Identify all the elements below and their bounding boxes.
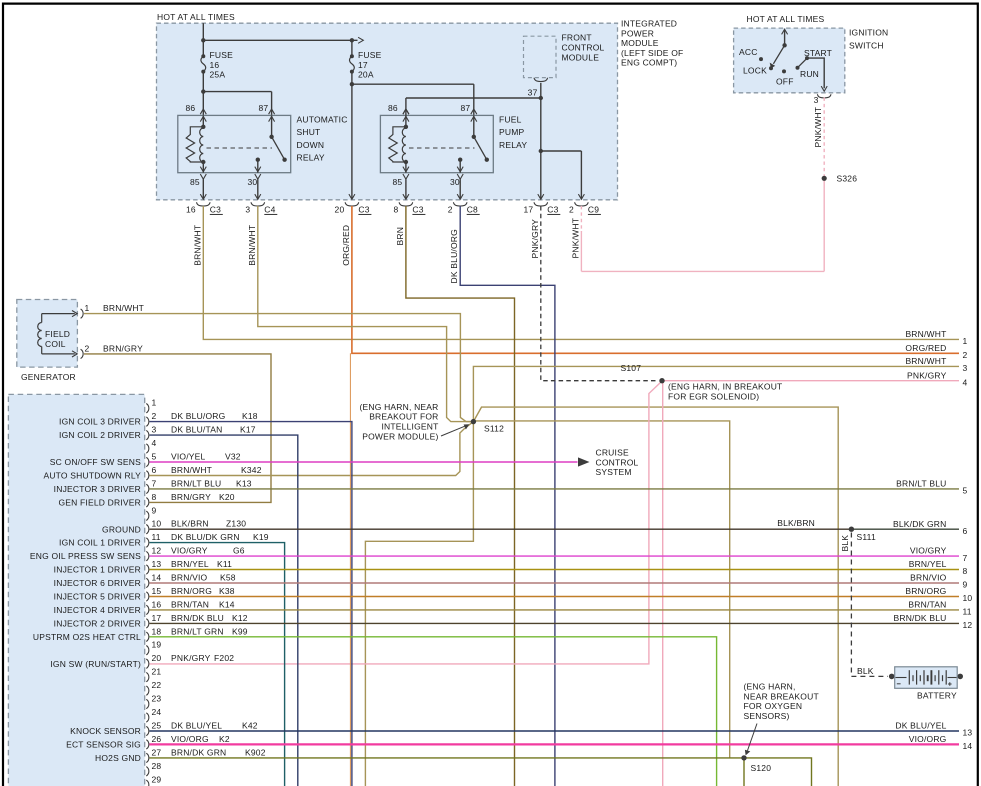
svg-text:BRN/WHT: BRN/WHT	[905, 356, 946, 366]
ASD relay coil with parallel resistor (pin 86 to 85)	[186, 109, 206, 179]
wire DK BLU/ORG from IPM 2 C8 down off-page	[460, 206, 555, 786]
wire PNK/GRY (dark dashed) from IPM 17 C3 to splice S107	[541, 206, 659, 381]
wire K19 DK BLU/DK GRN from PCM pin 11 down off-page	[150, 543, 285, 786]
svg-text:S326: S326	[837, 174, 858, 184]
svg-text:Z130: Z130	[226, 519, 246, 529]
PCM connector pin 29	[146, 774, 161, 786]
PCM connector pin 16	[54, 599, 235, 615]
field coil (generator)	[38, 314, 75, 354]
svg-text:UPSTRM O2S HEAT CTRL: UPSTRM O2S HEAT CTRL	[33, 632, 141, 642]
front control module (FCM)	[524, 33, 605, 98]
right terminal 12 BRN/DK BLU	[893, 613, 972, 630]
svg-text:BRN/DK GRN: BRN/DK GRN	[171, 747, 226, 757]
svg-text:87: 87	[461, 103, 471, 113]
svg-text:BRN/GRY: BRN/GRY	[171, 492, 211, 502]
svg-text:VIO/ORG: VIO/ORG	[909, 734, 947, 744]
svg-text:PNK/GRY: PNK/GRY	[530, 219, 540, 259]
svg-text:V32: V32	[225, 452, 241, 462]
svg-text:86: 86	[388, 103, 398, 113]
wire BRN/WHT generator pin 1 to splice S112	[84, 314, 471, 422]
svg-text:K2: K2	[219, 734, 230, 744]
note: ENG HARN NEAR BREAKOUT FOR INTELLIGENT POWER MODULE	[359, 402, 469, 441]
svg-text:VIO/YEL: VIO/YEL	[171, 452, 206, 462]
svg-text:K11: K11	[217, 559, 232, 569]
svg-text:KNOCK SENSOR: KNOCK SENSOR	[70, 726, 141, 736]
generator connector pins 1 and 2	[72, 303, 144, 359]
wire K17 DK BLU/TAN from PCM pin 3 down off-page	[150, 435, 298, 786]
svg-text:CRUISE: CRUISE	[596, 448, 629, 458]
svg-text:5: 5	[152, 452, 157, 462]
svg-text:17: 17	[152, 613, 162, 623]
svg-text:FUSE: FUSE	[358, 50, 382, 60]
relay: AUTOMATIC SHUT DOWN RELAY	[178, 103, 348, 187]
wire K13 BRN/LT BLU from PCM pin 7 to right terminal 5	[150, 488, 960, 490]
splice S120	[741, 755, 771, 773]
svg-text:BRN/TAN: BRN/TAN	[171, 599, 209, 609]
svg-text:F202: F202	[214, 653, 234, 663]
svg-text:ENG OIL PRESS SW SENS: ENG OIL PRESS SW SENS	[30, 551, 141, 561]
svg-text:BREAKOUT FOR: BREAKOUT FOR	[369, 412, 438, 422]
svg-text:30: 30	[450, 177, 460, 187]
wire: fuse 17 output to fuel pump relay pin 87	[350, 82, 474, 115]
svg-text:PNK/WHT: PNK/WHT	[570, 218, 580, 259]
svg-text:RELAY: RELAY	[499, 140, 527, 150]
svg-text:14: 14	[152, 573, 162, 583]
PCM connector pin 7	[54, 478, 252, 494]
svg-text:K20: K20	[219, 492, 235, 502]
svg-text:37: 37	[528, 88, 538, 98]
right terminal 5 BRN/LT BLU	[896, 479, 967, 496]
PCM connector pin 28	[146, 761, 161, 776]
FPR actuation dashed link	[409, 147, 475, 149]
svg-text:VIO/GRY: VIO/GRY	[910, 546, 947, 556]
FPR relay coil with parallel resistor (pin 86 to 85)	[389, 109, 409, 179]
right terminal 13 DK BLU/YEL	[895, 721, 972, 738]
svg-text:CONTROL: CONTROL	[596, 457, 639, 467]
svg-text:MODULE: MODULE	[562, 52, 600, 62]
splice S111	[849, 527, 876, 543]
PCM connector pin 15	[54, 586, 235, 602]
svg-text:1: 1	[85, 303, 90, 313]
IPM connector pin 2 C9	[569, 202, 601, 214]
PCM connector pin 3	[59, 425, 256, 441]
right terminal 1 BRN/WHT	[905, 329, 967, 346]
svg-text:DK BLU/YEL: DK BLU/YEL	[171, 721, 222, 731]
right terminal 4 PNK/GRY	[907, 370, 968, 387]
ASD relay switch contacts (pin 87 to 30)	[255, 109, 287, 179]
svg-text:ACC: ACC	[739, 47, 758, 57]
wire K42 DK BLU/YEL from PCM pin 25 to right terminal 13	[150, 730, 960, 732]
svg-text:11: 11	[963, 607, 972, 617]
svg-text:BRN: BRN	[395, 227, 405, 246]
svg-text:RUN: RUN	[800, 69, 819, 79]
PCM connector pin 1	[146, 398, 156, 413]
svg-text:PNK/GRY: PNK/GRY	[907, 370, 947, 380]
right terminal 8 BRN/YEL	[909, 559, 968, 576]
svg-text:24: 24	[152, 707, 162, 717]
splice S326	[822, 174, 858, 184]
svg-text:DK BLU/ORG: DK BLU/ORG	[449, 229, 459, 283]
wire: fuse 16 output to ASD relay pins 86 and 87	[201, 89, 272, 115]
svg-text:INJECTOR 4 DRIVER: INJECTOR 4 DRIVER	[54, 605, 141, 615]
svg-text:VIO/ORG: VIO/ORG	[171, 734, 209, 744]
svg-text:ORG/RED: ORG/RED	[905, 343, 946, 353]
right terminal 7 VIO/GRY	[910, 546, 968, 563]
svg-text:K13: K13	[236, 478, 252, 488]
svg-text:19: 19	[152, 640, 162, 650]
svg-text:SC ON/OFF SW SENS: SC ON/OFF SW SENS	[50, 457, 141, 467]
svg-text:BRN/GRY: BRN/GRY	[103, 343, 143, 353]
IPM connector pin 3 C4	[245, 202, 277, 214]
svg-text:(ENG HARN, NEAR: (ENG HARN, NEAR	[359, 402, 438, 412]
svg-text:20A: 20A	[358, 70, 374, 80]
svg-text:CONTROL: CONTROL	[562, 43, 605, 53]
svg-text:C3: C3	[412, 204, 423, 214]
svg-text:BRN/WHT: BRN/WHT	[192, 225, 202, 266]
svg-text:IGN COIL 2 DRIVER: IGN COIL 2 DRIVER	[59, 430, 141, 440]
svg-text:25: 25	[152, 721, 162, 731]
svg-text:2: 2	[85, 343, 90, 353]
wire BRN/GRY generator pin 2 to PCM pin 8	[84, 354, 271, 503]
svg-text:C3: C3	[547, 204, 558, 214]
svg-text:BRN/TAN: BRN/TAN	[908, 600, 946, 610]
wire G6 VIO/GRY from PCM pin 12 to right terminal 7	[150, 555, 960, 557]
svg-text:VIO/GRY: VIO/GRY	[171, 546, 208, 556]
powertrain control module connector enclosure	[8, 394, 144, 786]
svg-text:C4: C4	[264, 204, 275, 214]
svg-text:10: 10	[152, 519, 162, 529]
svg-text:DK BLU/TAN: DK BLU/TAN	[171, 425, 222, 435]
svg-text:85: 85	[393, 177, 403, 187]
integrated power module (IPM) enclosure	[157, 12, 618, 200]
svg-text:DK BLU/YEL: DK BLU/YEL	[895, 721, 946, 731]
svg-text:BRN/ORG: BRN/ORG	[171, 586, 212, 596]
svg-text:GEN FIELD DRIVER: GEN FIELD DRIVER	[58, 497, 141, 507]
wire BRN/WHT from IPM 16 C3 to right terminal 1	[203, 206, 959, 339]
svg-text:BRN/LT GRN: BRN/LT GRN	[171, 626, 224, 636]
svg-text:8: 8	[393, 204, 398, 214]
label: CRUISE CONTROL SYSTEM	[596, 448, 639, 478]
svg-text:S120: S120	[751, 763, 772, 773]
svg-text:K99: K99	[232, 626, 248, 636]
right terminal 3 BRN/WHT	[905, 356, 967, 373]
svg-text:BRN/DK BLU: BRN/DK BLU	[171, 613, 224, 623]
svg-text:HO2S GND: HO2S GND	[95, 753, 141, 763]
svg-text:27: 27	[152, 747, 162, 757]
svg-text:K14: K14	[219, 599, 235, 609]
PCM connector pin 10	[102, 519, 246, 535]
svg-text:FOR OXYGEN: FOR OXYGEN	[744, 701, 803, 711]
svg-text:86: 86	[186, 103, 196, 113]
svg-text:K19: K19	[253, 532, 269, 542]
PCM connector pin 8	[58, 492, 234, 508]
wire BRN from IPM 8 C3 down off-page	[406, 206, 515, 786]
IPM connector pin 2 C8	[448, 202, 480, 214]
PCM connector pin 5	[50, 452, 241, 468]
svg-text:POWER: POWER	[621, 28, 654, 38]
svg-text:3: 3	[152, 425, 157, 435]
svg-text:HOT AT ALL TIMES: HOT AT ALL TIMES	[157, 12, 235, 22]
svg-text:12: 12	[152, 546, 162, 556]
wire: FCM pin 37 node to FPR pin 86	[403, 96, 543, 116]
wire: FPR pin 30 to IPM connector 2 C8	[457, 179, 463, 199]
relay: FUEL PUMP RELAY	[380, 103, 527, 187]
svg-text:22: 22	[152, 680, 162, 690]
PCM connector pin 14	[54, 573, 236, 589]
wire K58 BRN/VIO from PCM pin 14 to right terminal 9	[150, 582, 960, 584]
ignition switch contacts ACC LOCK OFF RUN START	[739, 29, 832, 91]
PCM connector pin 18	[33, 626, 248, 642]
wire K902 BRN/DK GRN from PCM pin 27 through splice S120	[150, 758, 812, 786]
PCM connector pin 2	[59, 411, 258, 427]
svg-text:S107: S107	[621, 363, 642, 373]
svg-text:16: 16	[186, 204, 196, 214]
svg-text:4: 4	[152, 438, 157, 448]
PCM connector pin 9	[146, 505, 156, 520]
svg-text:K38: K38	[219, 586, 235, 596]
wire K18 DK BLU/ORG from PCM pin 2 down off-page	[150, 422, 352, 786]
svg-text:K42: K42	[242, 721, 258, 731]
svg-text:FIELD: FIELD	[45, 329, 70, 339]
svg-text:FUSE: FUSE	[210, 50, 234, 60]
PCM connector pin 26	[66, 734, 230, 750]
svg-text:3: 3	[963, 363, 968, 373]
wire K99 BRN/LT GRN from PCM pin 18 down off-page	[150, 637, 717, 786]
svg-text:IGN COIL 3 DRIVER: IGN COIL 3 DRIVER	[59, 417, 141, 427]
wire Z130 BLK/BRN from PCM pin 10 to splice S111	[150, 518, 852, 529]
wire PNK/WHT from ignition switch to splice S326	[813, 98, 824, 179]
svg-text:6: 6	[152, 465, 157, 475]
PCM connector pin 17	[54, 613, 248, 629]
svg-text:ECT SENSOR SIG: ECT SENSOR SIG	[66, 740, 141, 750]
svg-text:BLK/BRN: BLK/BRN	[171, 519, 209, 529]
svg-text:FOR EGR SOLENOID): FOR EGR SOLENOID)	[668, 392, 759, 402]
svg-text:17: 17	[358, 60, 368, 70]
IPM label: INTEGRATED POWER MODULE (LEFT SIDE OF ENG COMPT)	[621, 19, 683, 68]
svg-text:25A: 25A	[210, 70, 226, 80]
wire PNK/GRY from S107 down off-page	[662, 382, 664, 786]
IPM connector pin 20 C3	[335, 202, 372, 214]
right terminal 14 VIO/ORG	[909, 734, 973, 751]
svg-text:LOCK: LOCK	[743, 66, 767, 76]
svg-text:2: 2	[448, 204, 453, 214]
svg-text:14: 14	[963, 741, 973, 751]
svg-text:BRN/DK BLU: BRN/DK BLU	[893, 613, 946, 623]
svg-text:COIL: COIL	[45, 339, 66, 349]
svg-text:6: 6	[963, 526, 968, 536]
svg-text:26: 26	[152, 734, 162, 744]
IPM connector pin 16 C3	[186, 202, 223, 214]
wire K2 VIO/ORG from PCM pin 26 to right terminal 14	[150, 743, 960, 745]
svg-text:IGNITION: IGNITION	[849, 27, 888, 37]
svg-text:3: 3	[814, 95, 819, 105]
svg-text:4: 4	[963, 377, 968, 387]
wire: ASD pin 85 to IPM connector 16 C3	[200, 179, 206, 199]
right terminal 10 BRN/ORG	[905, 586, 972, 603]
svg-text:INTELLIGENT: INTELLIGENT	[382, 422, 439, 432]
wire: ORG/RED stripe next to K18 vertical	[349, 353, 351, 786]
svg-text:POWER MODULE): POWER MODULE)	[362, 431, 438, 441]
battery	[889, 667, 963, 701]
wire: fuse 17 output down to IPM connector 20 C3	[349, 72, 355, 200]
ignition switch connector pin 3	[814, 94, 831, 105]
svg-text:10: 10	[963, 593, 973, 603]
wire: FCM pin 37 feed down to IPM connector 17 C3	[538, 83, 544, 200]
svg-text:2: 2	[152, 411, 157, 421]
svg-text:BLK: BLK	[857, 666, 874, 676]
PCM connector pin 4	[146, 438, 156, 453]
wire K11 BRN/YEL from PCM pin 13 to right terminal 8	[150, 569, 960, 571]
svg-text:BRN/LT BLU: BRN/LT BLU	[171, 478, 221, 488]
svg-text:BLK/DK GRN: BLK/DK GRN	[893, 519, 947, 529]
svg-text:START: START	[804, 48, 832, 58]
svg-text:23: 23	[152, 694, 162, 704]
PCM connector pin 21	[146, 667, 161, 682]
svg-text:9: 9	[152, 505, 157, 515]
right terminal 9 BRN/VIO	[910, 573, 967, 590]
svg-text:7: 7	[963, 553, 968, 563]
fuse 17 20A	[350, 40, 382, 79]
svg-text:(LEFT SIDE OF: (LEFT SIDE OF	[621, 48, 683, 58]
svg-text:BRN/WHT: BRN/WHT	[103, 303, 144, 313]
svg-text:13: 13	[963, 728, 973, 738]
svg-text:1: 1	[152, 398, 157, 408]
svg-text:INJECTOR 5 DRIVER: INJECTOR 5 DRIVER	[54, 592, 141, 602]
svg-text:PNK/GRY: PNK/GRY	[171, 653, 211, 663]
svg-text:BRN/YEL: BRN/YEL	[909, 559, 947, 569]
svg-text:S111: S111	[857, 532, 876, 542]
svg-text:C9: C9	[588, 204, 599, 214]
svg-text:2: 2	[569, 204, 574, 214]
wire: FCM node to IPM connector 2 C9	[539, 149, 585, 200]
svg-text:BRN/VIO: BRN/VIO	[910, 573, 947, 583]
svg-text:GROUND: GROUND	[102, 524, 141, 534]
splice S112	[471, 419, 504, 433]
svg-text:ORG/RED: ORG/RED	[341, 225, 351, 266]
svg-text:INJECTOR 6 DRIVER: INJECTOR 6 DRIVER	[54, 578, 141, 588]
svg-text:FRONT: FRONT	[562, 33, 592, 43]
svg-text:30: 30	[248, 177, 258, 187]
svg-text:DK BLU/DK GRN: DK BLU/DK GRN	[171, 532, 240, 542]
right terminal 11 BRN/TAN	[908, 600, 971, 617]
svg-text:87: 87	[259, 103, 269, 113]
svg-text:BRN/WHT: BRN/WHT	[905, 329, 946, 339]
svg-text:16: 16	[152, 599, 162, 609]
wire BRN/WHT from S112 right then down to splice S120 area	[473, 421, 729, 758]
wire BRN/WHT right terminal 3 down through S112 then to lower-left off-page	[365, 366, 959, 786]
wire PNK/GRY from S107 to right terminal 4	[662, 380, 959, 382]
wire: ASD pin 30 to IPM connector 3 C4	[255, 179, 261, 199]
svg-text:BRN/ORG: BRN/ORG	[905, 586, 946, 596]
svg-text:20: 20	[152, 653, 162, 663]
svg-text:8: 8	[963, 566, 968, 576]
wire V32 VIO/YEL from PCM pin 5 to cruise control system	[150, 457, 590, 466]
svg-text:K58: K58	[220, 573, 236, 583]
svg-text:MODULE: MODULE	[621, 38, 659, 48]
splice S107	[621, 363, 665, 383]
svg-text:3: 3	[245, 204, 250, 214]
svg-text:C3: C3	[210, 204, 221, 214]
svg-text:BRN/WHT: BRN/WHT	[247, 225, 257, 266]
PCM connector pin 11	[59, 532, 269, 548]
svg-text:16: 16	[210, 60, 220, 70]
PCM connector pin 20	[50, 653, 234, 669]
svg-text:7: 7	[152, 478, 157, 488]
svg-text:9: 9	[963, 580, 968, 590]
svg-text:OFF: OFF	[776, 76, 794, 86]
svg-text:K12: K12	[232, 613, 248, 623]
svg-text:IGN COIL 1 DRIVER: IGN COIL 1 DRIVER	[59, 538, 141, 548]
svg-text:C8: C8	[467, 204, 478, 214]
svg-text:PUMP: PUMP	[499, 127, 524, 137]
svg-text:INJECTOR 3 DRIVER: INJECTOR 3 DRIVER	[54, 484, 141, 494]
right terminal 2 ORG/RED	[905, 343, 967, 360]
svg-text:29: 29	[152, 774, 162, 784]
svg-text:K342: K342	[241, 465, 262, 475]
svg-text:BRN/LT BLU: BRN/LT BLU	[896, 479, 946, 489]
wire K38 BRN/ORG from PCM pin 15 to right terminal 10	[150, 596, 960, 598]
svg-text:BRN/VIO: BRN/VIO	[171, 573, 208, 583]
wire BLK/DK GRN from S111 to right terminal 6	[851, 519, 959, 529]
svg-text:11: 11	[152, 532, 161, 542]
wire BRN/WHT K342 from S112 down-left to PCM pin 6	[150, 422, 474, 476]
svg-text:8: 8	[152, 492, 157, 502]
PCM connector pin 6	[43, 465, 261, 481]
wire PNK/WHT from S326 to IPM connector 2 C9	[581, 178, 824, 271]
svg-text:BLK: BLK	[840, 535, 850, 552]
svg-text:1: 1	[963, 336, 968, 346]
svg-text:FUEL: FUEL	[499, 115, 522, 125]
PCM connector pin 23	[146, 694, 161, 709]
svg-text:BLK/BRN: BLK/BRN	[777, 518, 815, 528]
note: ENG HARN IN BREAKOUT FOR EGR SOLENOID	[668, 382, 782, 402]
IPM connector pin 17 C3	[523, 202, 560, 214]
note: ENG HARN NEAR BREAKOUT FOR OXYGEN SENSORS	[744, 682, 819, 756]
right terminal 6 BLK/DK GRN	[963, 526, 968, 536]
IPM connector pin 8 C3	[393, 202, 425, 214]
svg-text:C3: C3	[358, 204, 369, 214]
svg-text:K18: K18	[242, 411, 258, 421]
wire K12 BRN/DK BLU from PCM pin 17 to right terminal 12	[150, 622, 960, 624]
wire PNK/GRY F202 from S107 to PCM pin 20	[150, 382, 662, 664]
svg-text:85: 85	[190, 177, 200, 187]
svg-text:G6: G6	[233, 546, 245, 556]
PCM connector pin 24	[146, 707, 161, 722]
FPR switch contacts (pin 87 to 30)	[457, 109, 489, 179]
svg-text:K902: K902	[245, 747, 266, 757]
PCM connector pin 25	[70, 721, 258, 737]
svg-text:DK BLU/ORG: DK BLU/ORG	[171, 411, 225, 421]
svg-text:RELAY: RELAY	[297, 153, 325, 163]
PCM connector pin 27	[95, 747, 266, 763]
fuse 16 25A	[201, 50, 233, 115]
svg-text:GENERATOR: GENERATOR	[21, 372, 76, 382]
wire: FPR pin 85 to IPM connector 8 C3	[403, 179, 409, 199]
svg-text:20: 20	[335, 204, 345, 214]
svg-text:INJECTOR 2 DRIVER: INJECTOR 2 DRIVER	[54, 619, 141, 629]
PCM connector pin 12	[30, 546, 245, 562]
svg-text:BRN/WHT: BRN/WHT	[171, 465, 212, 475]
svg-text:(ENG HARN, IN BREAKOUT: (ENG HARN, IN BREAKOUT	[668, 382, 782, 392]
svg-text:S112: S112	[484, 423, 504, 433]
svg-text:DOWN: DOWN	[297, 140, 325, 150]
svg-text:28: 28	[152, 761, 162, 771]
svg-text:NEAR BREAKOUT: NEAR BREAKOUT	[744, 691, 819, 701]
PCM connector pin 22	[146, 680, 161, 695]
svg-text:2: 2	[963, 350, 968, 360]
svg-text:K17: K17	[240, 425, 256, 435]
svg-text:SWITCH: SWITCH	[849, 41, 884, 51]
